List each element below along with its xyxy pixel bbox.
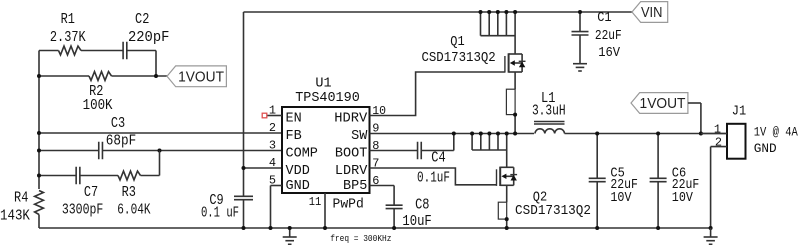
resistor R4 [35,191,44,215]
junction [37,174,41,178]
junction [709,226,713,230]
svg-text:U1: U1 [315,77,331,92]
wire SW [370,133,535,135]
pin 2 [711,146,727,148]
svg-text:5: 5 [269,174,276,188]
transistor Q2 [496,169,498,186]
svg-text:R3: R3 [122,184,136,201]
capacitor C3 [98,142,100,160]
junction [37,74,41,78]
svg-text:C7: C7 [84,184,98,201]
pin 11 PwPd [324,193,326,228]
svg-text:1V @ 4A: 1V @ 4A [754,125,798,140]
svg-text:68pF: 68pF [106,132,136,149]
svg-text:1VOUT: 1VOUT [640,95,686,112]
svg-text:CSD17313Q2: CSD17313Q2 [515,204,591,219]
svg-text:4: 4 [269,156,276,170]
svg-text:2.37K: 2.37K [50,29,86,46]
wire [159,151,161,176]
capacitor C8 [370,185,395,187]
node VIN [632,2,668,23]
svg-text:COMP: COMP [286,147,318,162]
pin 1 [701,133,727,135]
svg-text:VIN: VIN [641,4,663,21]
inductor L1 [535,129,564,134]
svg-text:220pF: 220pF [128,29,170,46]
wire VDD [243,12,245,168]
svg-text:C3: C3 [111,115,125,132]
pin 1 EN [267,115,282,117]
svg-text:SW: SW [351,129,368,144]
svg-text:2: 2 [715,136,722,150]
svg-text:LDRV: LDRV [335,164,368,179]
node 1VOUT [631,93,688,114]
svg-text:1: 1 [269,104,276,118]
capacitor C5 [596,134,598,179]
junction [269,226,273,230]
svg-text:16V: 16V [598,45,620,61]
junction [323,226,327,230]
svg-text:1: 1 [714,122,721,136]
capacitor C2 [122,42,124,60]
svg-text:C8: C8 [415,197,429,214]
wire HDRV [370,72,505,116]
svg-text:Q1: Q1 [450,35,464,50]
node 1VOUT [167,66,226,87]
junction [158,149,162,153]
svg-text:22uF: 22uF [595,28,622,44]
svg-text:6.04K: 6.04K [117,201,150,218]
capacitor C7 [75,167,77,185]
transistor Q1 [504,56,506,73]
resistor R2 [89,72,112,81]
junction [154,74,158,78]
svg-text:C1: C1 [597,10,611,26]
svg-text:10V: 10V [610,190,632,206]
wire [38,51,40,190]
svg-text:J1: J1 [732,104,746,119]
pin marker red [262,113,267,118]
connector J1 [727,124,746,159]
svg-text:143K: 143K [0,208,30,225]
transistor Q1 drain pins [480,12,482,36]
wire LDRV [370,168,497,185]
svg-text:TPS40190: TPS40190 [295,91,360,106]
junction [37,149,41,153]
svg-text:BP5: BP5 [343,179,367,194]
svg-text:11: 11 [309,195,322,209]
svg-text:10V: 10V [672,190,694,206]
svg-text:HDRV: HDRV [334,112,368,127]
capacitor C1 [579,12,581,32]
svg-text:R4: R4 [14,190,28,207]
transistor Q2 drain pins [471,134,473,151]
junction [392,226,396,230]
resistor R1 [59,46,82,55]
ground [573,63,587,65]
svg-text:3: 3 [269,139,276,153]
svg-text:PwPd: PwPd [333,197,364,212]
ground [710,228,712,237]
capacitor C9 [243,168,245,196]
svg-text:C2: C2 [135,11,149,28]
svg-text:10uF: 10uF [402,213,431,230]
svg-text:0.1 uF: 0.1 uF [201,204,239,221]
svg-text:EN: EN [286,112,302,127]
svg-text:VDD: VDD [286,164,310,179]
svg-text:3.3uH: 3.3uH [532,103,566,120]
svg-text:0.1uF: 0.1uF [417,169,450,186]
svg-text:2: 2 [269,121,276,135]
junction [37,131,41,135]
svg-text:GND: GND [754,141,777,156]
wire [38,215,40,229]
transistor Q1 source [514,72,516,89]
capacitor C6 [657,134,659,179]
wire VIN rail [244,11,633,13]
transistor Q2 source [506,185,508,202]
wire SW out [565,133,728,135]
svg-text:BOOT: BOOT [335,147,367,162]
junction [242,166,246,170]
svg-text:freq = 300KHz: freq = 300KHz [330,233,391,244]
junction [242,226,246,230]
svg-text:FB: FB [286,129,302,144]
svg-text:C4: C4 [431,150,445,167]
junction [513,132,517,136]
svg-text:CSD17313Q2: CSD17313Q2 [421,51,495,66]
svg-text:3300pF: 3300pF [62,201,104,218]
junction [578,10,582,14]
svg-text:100K: 100K [83,97,113,114]
junction [288,226,292,230]
svg-text:GND: GND [286,179,310,194]
wire [155,51,157,77]
resistor R3 [118,171,141,180]
svg-text:R1: R1 [61,11,75,28]
wire FB [39,132,282,134]
capacitor C4 [370,150,418,152]
wire ground rail [39,227,711,229]
ground [289,228,291,237]
svg-text:1VOUT: 1VOUT [178,69,224,86]
op-amp U1 TPS40190 [282,107,370,193]
pin 5 GND [271,185,283,187]
